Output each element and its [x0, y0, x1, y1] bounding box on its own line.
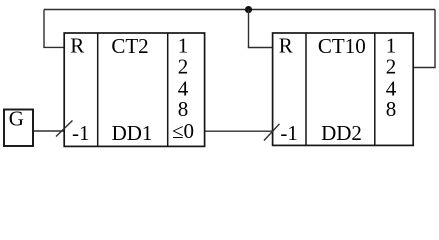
wire: right vertical riser from DD2 output 2: [434, 10, 436, 68]
svg-text:CT10: CT10: [318, 34, 366, 58]
wire: generator G output to DD1 -1 input: [33, 130, 65, 132]
svg-text:2: 2: [178, 54, 189, 78]
wire: horizontal stub into DD2 R pin: [248, 47, 273, 49]
counter DD2 body: [273, 33, 414, 145]
svg-text:2: 2: [386, 54, 397, 78]
svg-text:DD2: DD2: [321, 121, 362, 145]
svg-text:G: G: [9, 106, 24, 130]
svg-text:8: 8: [386, 97, 397, 121]
wire: horizontal stub into DD1 R pin: [43, 46, 64, 48]
counter DD2 right column divider: [374, 33, 376, 145]
svg-text:R: R: [279, 33, 293, 57]
wire: top feedback bus from DD2 output 2 to R inputs: [44, 9, 435, 11]
wire: DD1 output &#8804;0 to DD2 -1 input: [205, 130, 273, 132]
svg-text:R: R: [70, 33, 84, 57]
svg-text:DD1: DD1: [112, 121, 153, 145]
svg-text:-1: -1: [280, 121, 298, 145]
counter DD1 left column divider: [97, 33, 99, 146]
wire: left vertical drop to DD1 R input: [43, 10, 45, 48]
slash mark on DD2 -1 input wire: [264, 124, 280, 141]
generator G box: [4, 110, 33, 147]
counter DD1 body: [64, 33, 204, 146]
svg-text:-1: -1: [72, 121, 90, 145]
counter DD2 left column divider: [305, 33, 307, 145]
junction node on feedback bus: [245, 6, 252, 13]
svg-text:8: 8: [178, 97, 189, 121]
wire: stub from DD2 output 2 pin to riser: [413, 67, 436, 69]
svg-text:CT2: CT2: [111, 34, 148, 58]
svg-text:≤0: ≤0: [172, 119, 194, 143]
slash mark on DD1 -1 input wire: [56, 121, 73, 137]
wire: middle vertical drop from junction to DD2 R input: [248, 10, 250, 48]
counter DD1 right column divider: [167, 33, 169, 146]
